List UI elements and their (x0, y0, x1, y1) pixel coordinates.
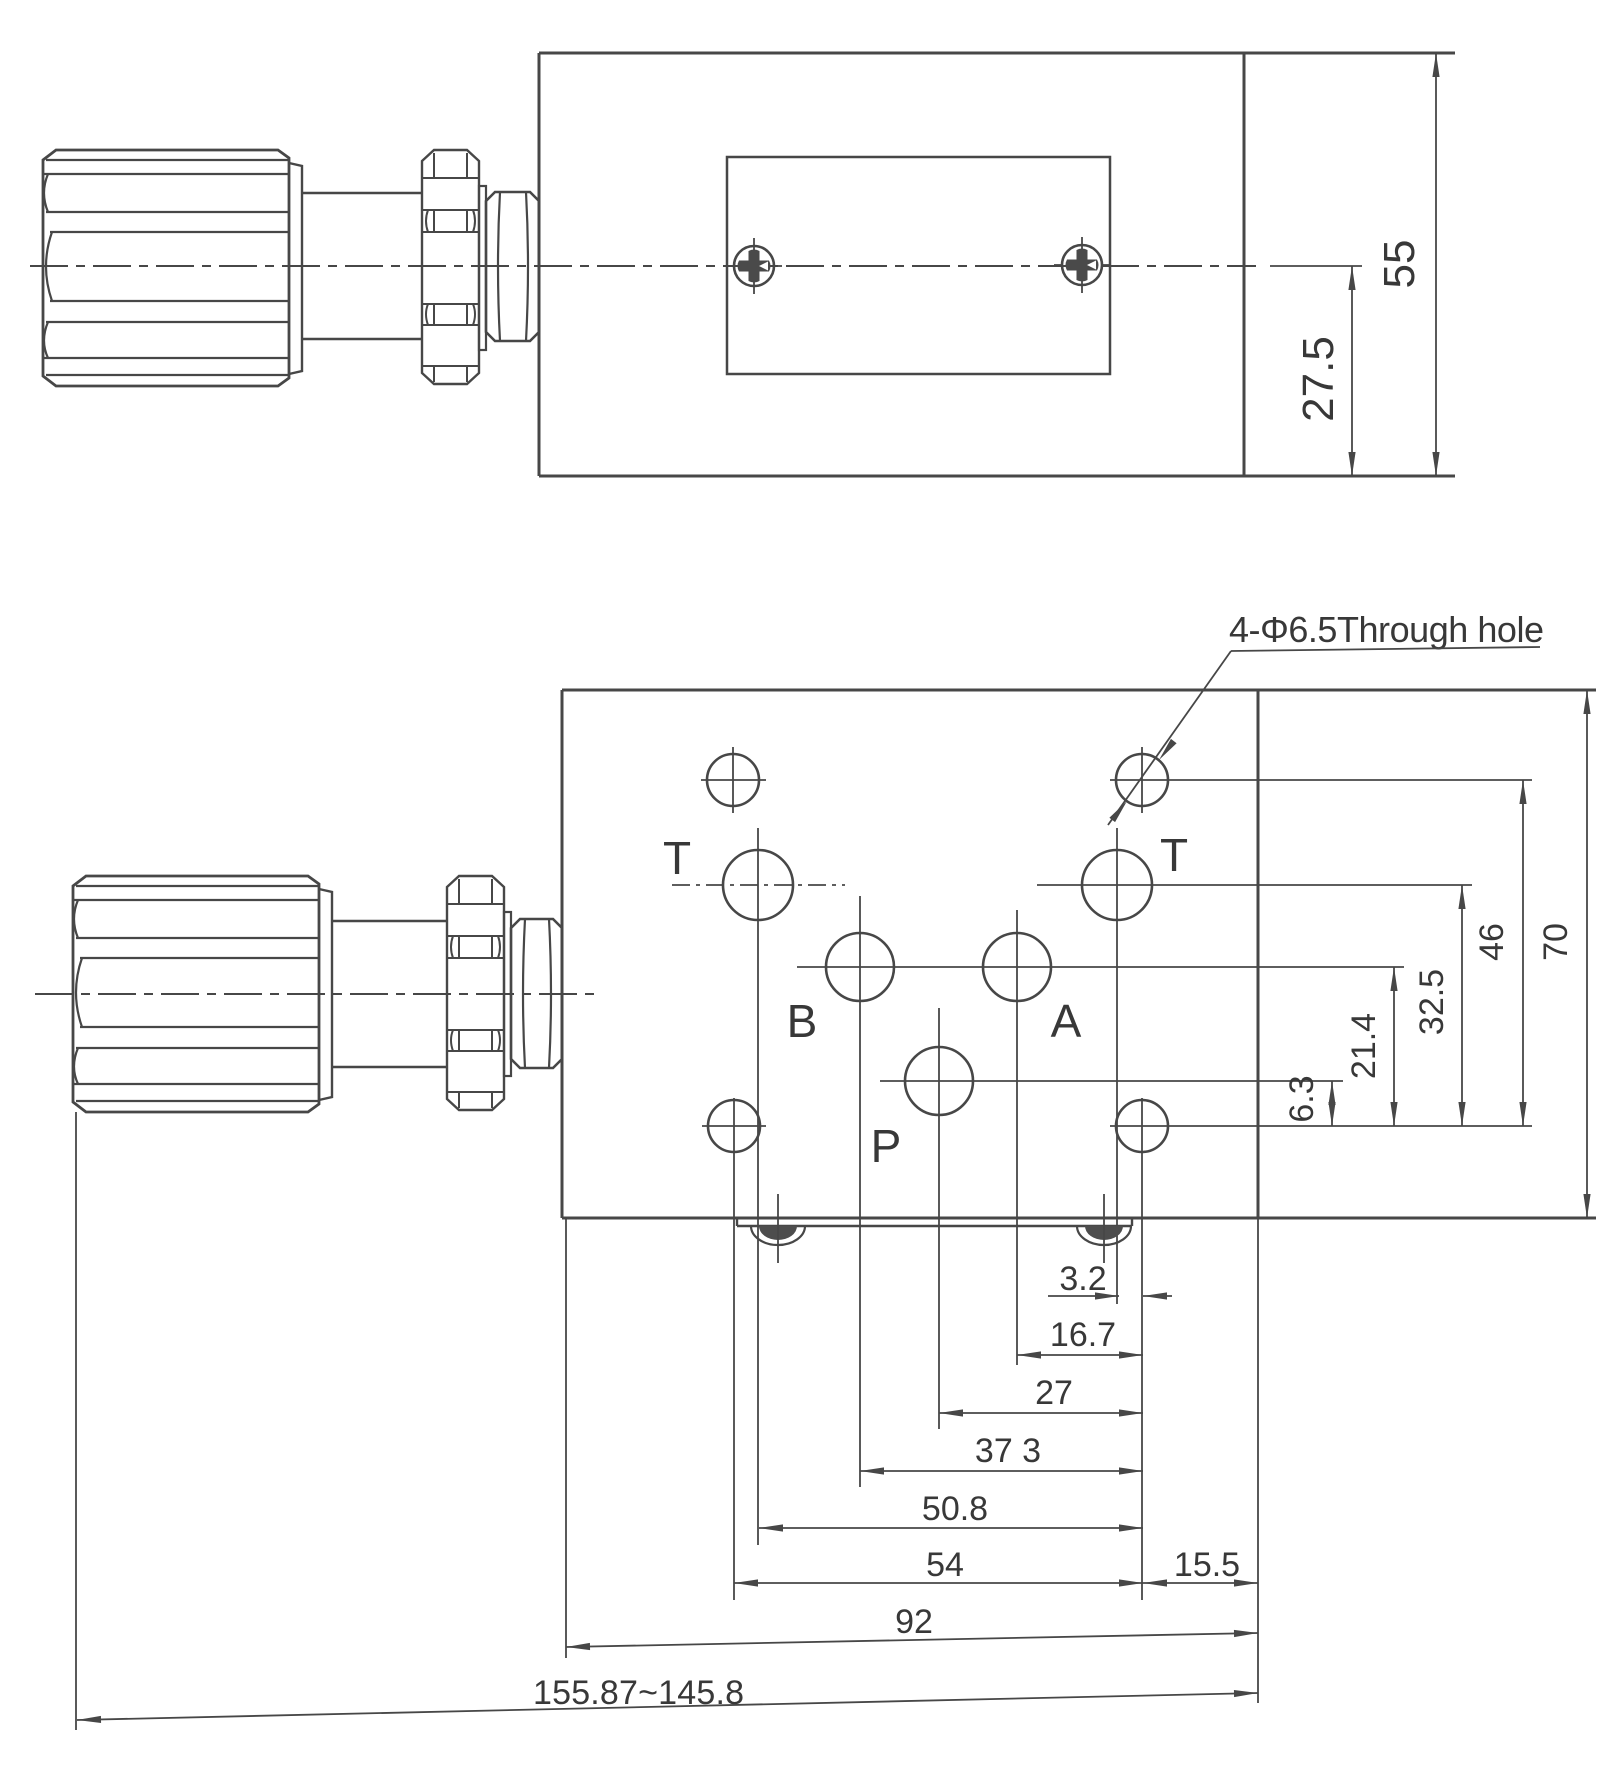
svg-text:T: T (663, 832, 691, 884)
hex nut (bottom view) (511, 919, 562, 1068)
svg-text:70: 70 (1537, 923, 1575, 961)
center line (top view) (30, 265, 1256, 267)
knurled locknut (bottom view) (447, 876, 504, 1110)
mounting plate (top view) (727, 157, 1110, 374)
washer (top view) (479, 186, 486, 350)
port hole B (797, 896, 1404, 1487)
valve body (top view) (539, 53, 1455, 476)
extension line body left edge (565, 1218, 567, 1658)
svg-text:6.3: 6.3 (1283, 1075, 1321, 1122)
knurled locknut (top view) (422, 150, 479, 384)
svg-text:27.5: 27.5 (1294, 336, 1343, 422)
screw head lower-left (751, 1194, 805, 1263)
dimension 70 (1537, 690, 1591, 1218)
svg-text:54: 54 (926, 1546, 964, 1584)
port hole bottom-right (through hole) (1110, 1098, 1532, 1600)
dimension 54 (734, 1546, 1143, 1587)
svg-text:4-Φ6.5Through hole: 4-Φ6.5Through hole (1229, 609, 1544, 650)
dimension 32.5 (1413, 885, 1466, 1126)
port hole bottom-left (through hole) (702, 1098, 766, 1600)
svg-text:155.87~145.8: 155.87~145.8 (533, 1674, 744, 1712)
svg-text:3.2: 3.2 (1059, 1260, 1106, 1298)
port hole top-left (through hole) (701, 747, 766, 813)
stem (bottom view) (332, 921, 447, 1067)
dimension 3.2 (1048, 1260, 1172, 1300)
svg-text:16.7: 16.7 (1050, 1316, 1116, 1354)
stem (top view) (302, 193, 422, 339)
knurled adjustment knob (bottom view) (73, 876, 332, 1112)
leader 4-phi6.5 through hole (1108, 609, 1544, 825)
screw S1 (726, 238, 782, 294)
screw head lower-right (1077, 1194, 1131, 1263)
port hole top-right (through hole) (1110, 747, 1532, 813)
svg-text:32.5: 32.5 (1413, 969, 1451, 1035)
dimension 37.3 (860, 1432, 1143, 1475)
svg-text:27: 27 (1035, 1374, 1073, 1412)
svg-text:46: 46 (1473, 923, 1511, 961)
dimension 155.87-145.8 (77, 1674, 1258, 1724)
svg-text:B: B (787, 995, 818, 1047)
dimension 16.7 (1017, 1316, 1143, 1359)
valve body (bottom view) (562, 690, 1596, 1218)
washer (bottom view) (504, 912, 511, 1076)
svg-text:50.8: 50.8 (922, 1490, 988, 1528)
dimension 15.5 (1143, 1546, 1258, 1587)
port hole T left (672, 828, 845, 1545)
dimension 50.8 (759, 1490, 1143, 1532)
mounting plate edge below body (737, 1218, 1132, 1226)
port hole A (983, 910, 1051, 1365)
center line (bottom view) (35, 993, 600, 995)
dimension 27.5 (top view) (1270, 266, 1362, 476)
svg-text:15.5: 15.5 (1174, 1546, 1240, 1584)
svg-text:P: P (871, 1120, 902, 1172)
svg-text:37 3: 37 3 (975, 1432, 1041, 1470)
dimension 21.4 (1345, 967, 1398, 1126)
hex nut (top view) (486, 192, 539, 341)
dimension 6.3 (1283, 1075, 1336, 1126)
svg-text:A: A (1051, 995, 1082, 1047)
dimension 55 (top view) (1375, 53, 1440, 476)
dimension 27 (939, 1374, 1143, 1417)
dimension 92 (566, 1603, 1258, 1651)
svg-text:55: 55 (1375, 240, 1424, 289)
svg-text:21.4: 21.4 (1345, 1013, 1383, 1079)
svg-text:92: 92 (895, 1603, 933, 1641)
dimension 46 (1473, 780, 1527, 1126)
screw S2 (1054, 237, 1110, 293)
svg-text:T: T (1160, 829, 1188, 881)
port hole T right (1037, 828, 1472, 1304)
extension line knob left edge (75, 1112, 77, 1730)
extension line body right edge (1257, 1218, 1259, 1703)
knurled adjustment knob (top view) (43, 150, 302, 386)
port hole P (880, 1008, 1343, 1429)
